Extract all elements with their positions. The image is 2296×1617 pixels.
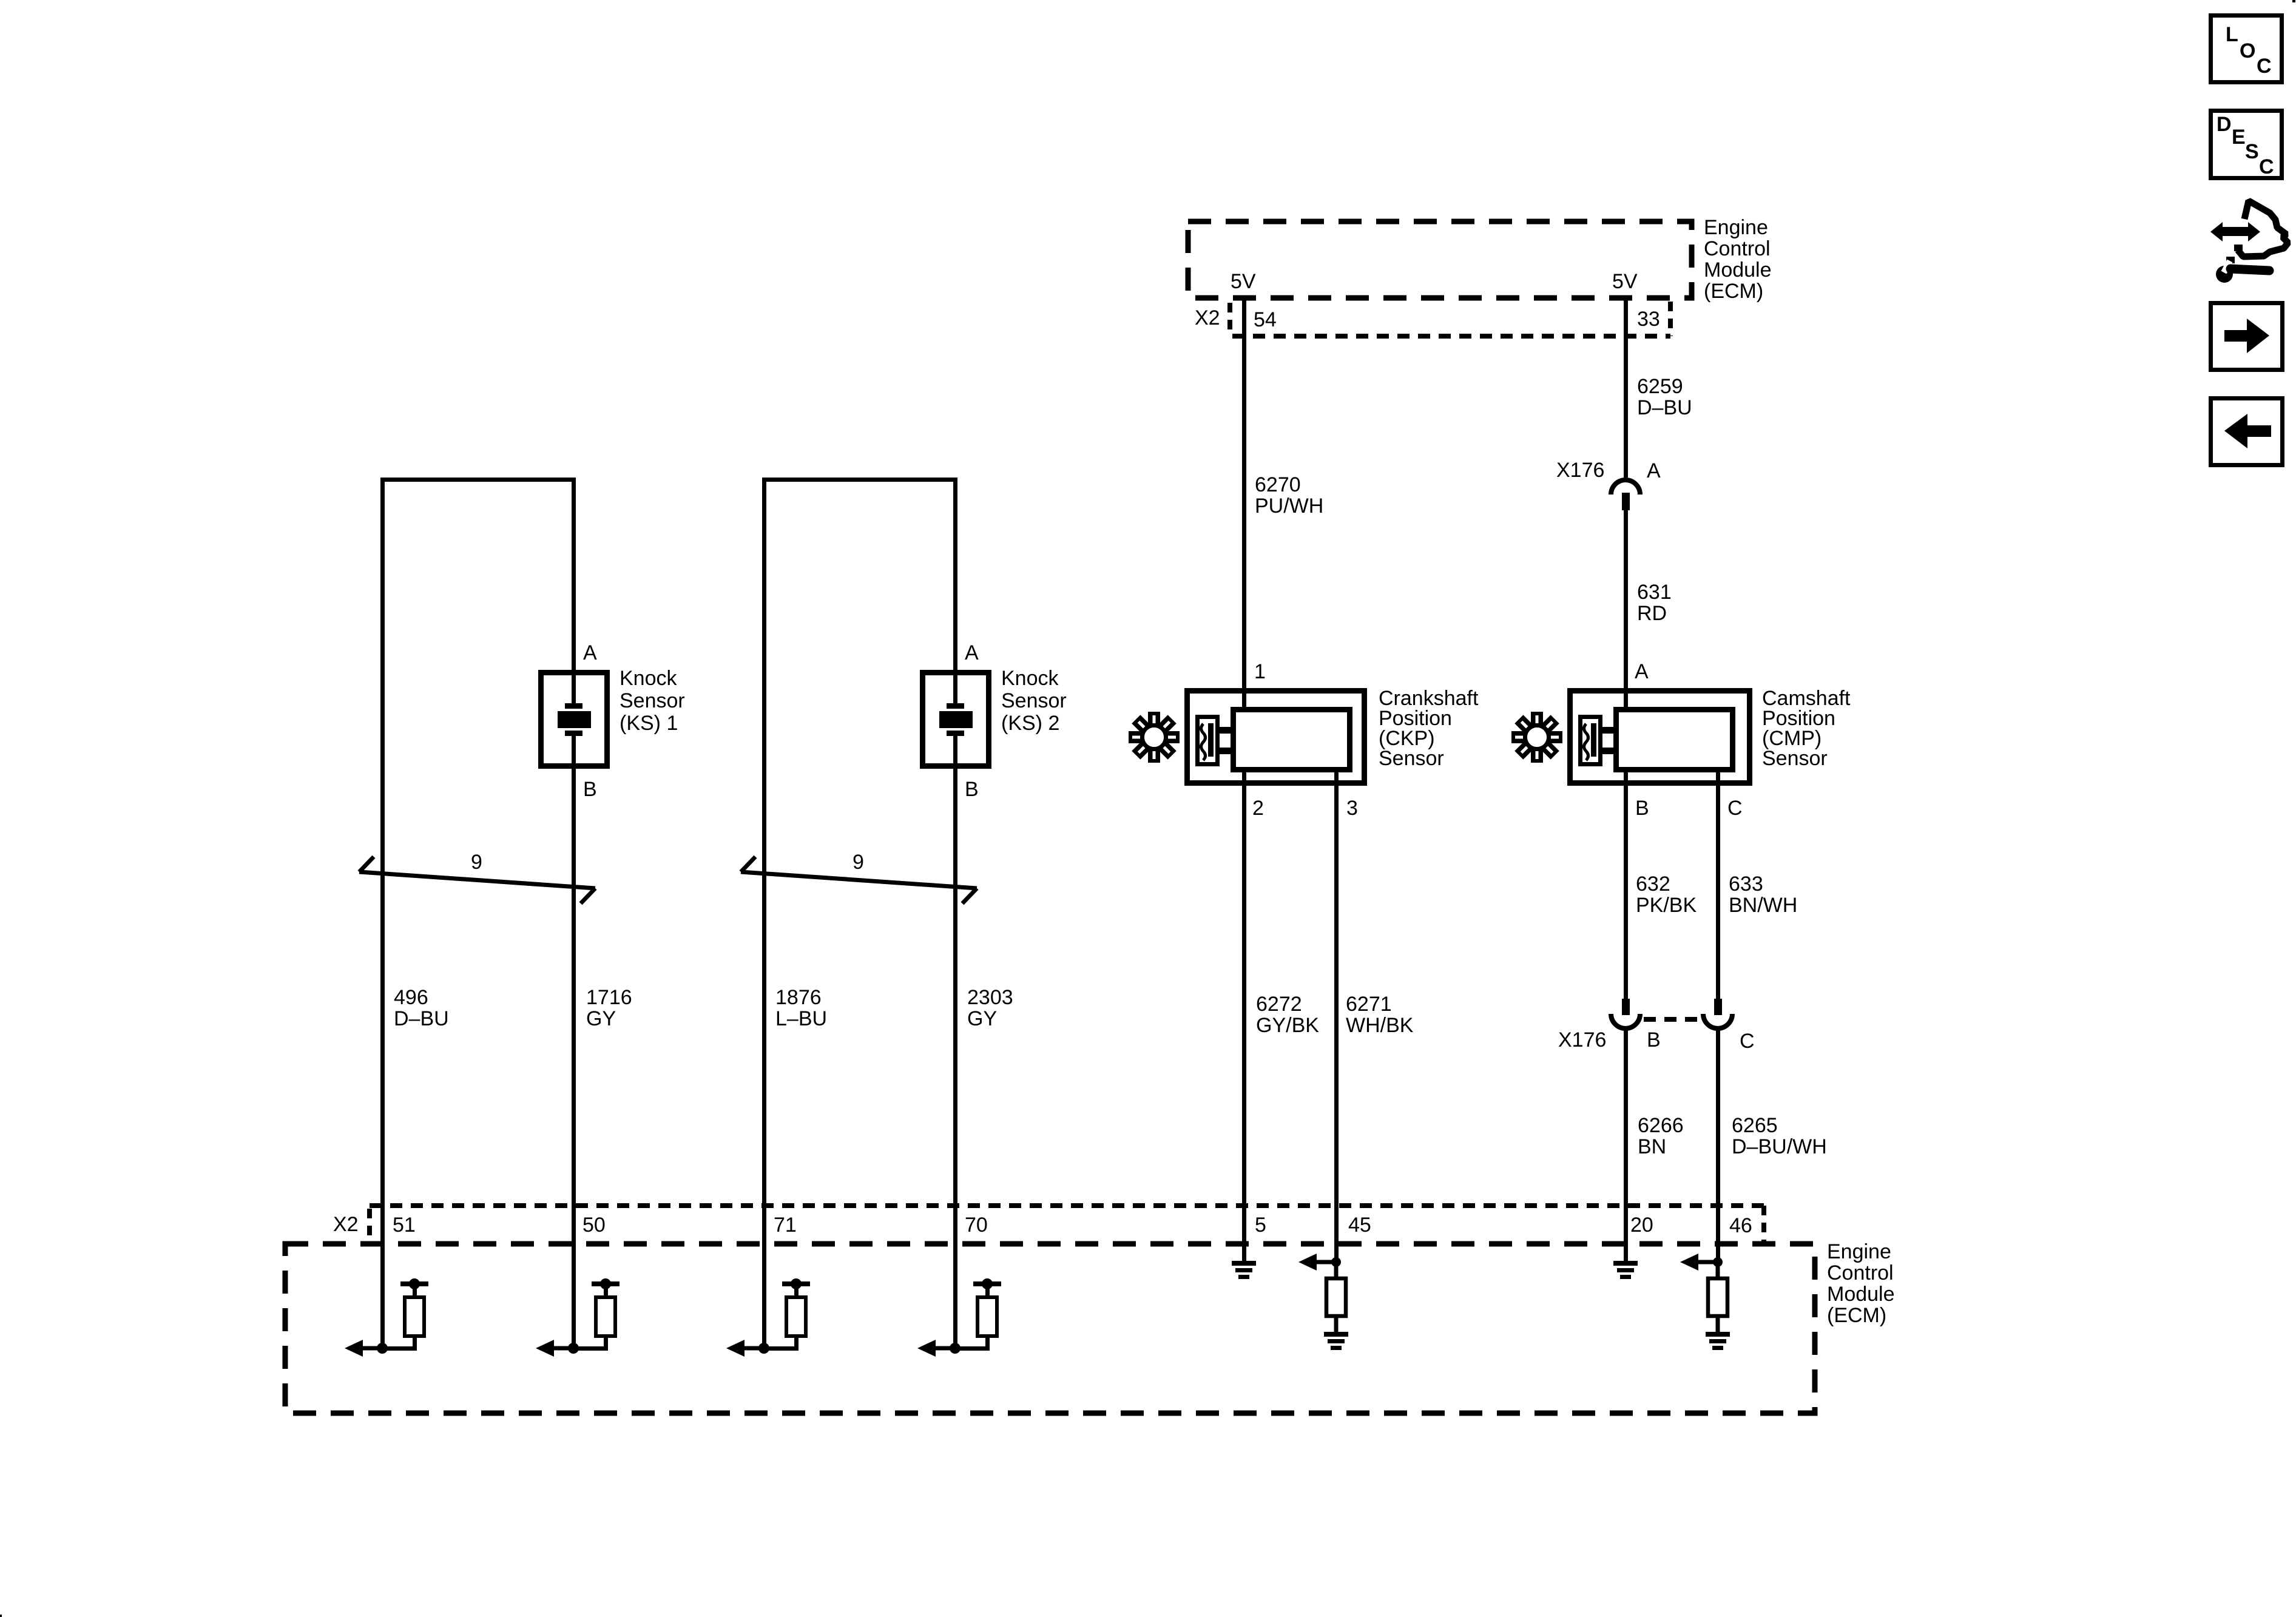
CMP reluctor gear icon <box>1511 712 1562 763</box>
wire 633 BN/WH (CMP pin C to X176 C) <box>1716 770 1720 999</box>
svg-text:X2: X2 <box>1195 306 1220 329</box>
svg-text:6266BN: 6266BN <box>1638 1114 1684 1158</box>
icon LOC box <box>2211 16 2282 83</box>
icon previous-page arrow box <box>2211 399 2283 465</box>
page corner mark top-right <box>2292 0 2295 2</box>
svg-text:46: 46 <box>1729 1214 1752 1237</box>
svg-text:X2: X2 <box>333 1213 359 1236</box>
knock sensor KS1 box <box>541 673 607 766</box>
svg-text:2303GY: 2303GY <box>967 986 1013 1030</box>
svg-text:C: C <box>1740 1030 1755 1053</box>
svg-text:B: B <box>965 778 979 801</box>
wire KS1 loop top <box>380 478 575 482</box>
svg-text:KnockSensor(KS) 1: KnockSensor(KS) 1 <box>620 667 685 735</box>
wire KS2 loop top <box>762 478 957 482</box>
wire 631 RD (X176 A to CMP pin A) <box>1624 510 1628 709</box>
X2 band separator (top) <box>1227 303 1232 334</box>
svg-text:A: A <box>1647 459 1661 482</box>
ECM bottom dashed box <box>285 1244 1815 1413</box>
svg-text:CamshaftPosition(CMP)Sensor: CamshaftPosition(CMP)Sensor <box>1762 687 1851 770</box>
svg-text:B: B <box>1635 797 1649 820</box>
X176 connector dashed link <box>1644 1017 1698 1022</box>
page corner mark bottom-left <box>0 1615 2 1617</box>
wire 632 PK/BK (CMP pin B to X176 B) <box>1624 770 1628 999</box>
X2 band top dotted line (bottom) <box>370 1203 1764 1208</box>
svg-text:6259D–BU: 6259D–BU <box>1637 375 1692 419</box>
svg-text:EngineControlModule(ECM): EngineControlModule(ECM) <box>1704 216 1772 303</box>
svg-text:631RD: 631RD <box>1637 581 1672 625</box>
svg-text:6272GY/BK: 6272GY/BK <box>1256 993 1319 1037</box>
ECM input circuit pin 71 (resistor + arrow) <box>726 1278 810 1357</box>
ECM top dashed box <box>1188 221 1692 298</box>
svg-text:S: S <box>2245 140 2259 163</box>
twisted pair splice KS2 <box>741 857 977 903</box>
wire 1876 L-BU (KS2 circuit loop left) <box>762 478 766 1350</box>
svg-text:B: B <box>1647 1028 1661 1052</box>
svg-text:A: A <box>583 641 597 664</box>
wire KS1 loop right down to sensor pin A <box>572 478 576 705</box>
svg-text:632PK/BK: 632PK/BK <box>1636 873 1697 917</box>
crankshaft position (CKP) sensor <box>1187 691 1365 783</box>
inline connector X176 pin C <box>1703 999 1732 1028</box>
svg-text:54: 54 <box>1254 308 1277 331</box>
wire KS2 loop right down to sensor pin A <box>953 478 957 705</box>
svg-text:20: 20 <box>1630 1214 1653 1237</box>
wire 6266 BN (X176 B to ECM pin 20) <box>1624 1029 1628 1261</box>
svg-text:E: E <box>2232 126 2246 149</box>
svg-text:9: 9 <box>853 851 864 874</box>
svg-text:X176: X176 <box>1556 459 1604 482</box>
ECM input circuit pin 50 (resistor + arrow) <box>536 1278 620 1357</box>
svg-text:1716GY: 1716GY <box>586 986 632 1030</box>
svg-text:C: C <box>2259 155 2274 178</box>
svg-text:33: 33 <box>1637 308 1660 331</box>
svg-text:5V: 5V <box>1612 270 1638 293</box>
ECM input circuit pin 70 (resistor + arrow) <box>917 1278 1001 1357</box>
svg-text:3: 3 <box>1346 797 1358 820</box>
svg-text:CrankshaftPosition(CKP)Sensor: CrankshaftPosition(CKP)Sensor <box>1379 687 1479 770</box>
X2 band right edge (top) <box>1668 302 1673 336</box>
X2 band right edge (bottom) <box>1761 1206 1766 1241</box>
wire 6270 PU/WH (ECM pin 54 to CKP pin 1) <box>1242 298 1246 709</box>
svg-text:6265D–BU/WH: 6265D–BU/WH <box>1732 1114 1827 1158</box>
knock sensor KS2 box <box>923 673 989 766</box>
X2 band bottom dotted line (top) <box>1232 334 1670 339</box>
ground pin 5 <box>1232 1261 1256 1279</box>
svg-text:KnockSensor(KS) 2: KnockSensor(KS) 2 <box>1001 667 1067 735</box>
twisted pair splice KS1 <box>359 857 595 903</box>
svg-text:L: L <box>2226 23 2238 46</box>
icon vehicle/wrench navigation <box>2210 201 2288 283</box>
svg-text:2: 2 <box>1252 797 1264 820</box>
svg-text:50: 50 <box>582 1214 606 1237</box>
ECM pin 45 pull-down resistor + arrow <box>1298 1254 1346 1332</box>
svg-text:633BN/WH: 633BN/WH <box>1729 873 1797 917</box>
svg-text:1876L–BU: 1876L–BU <box>775 986 827 1030</box>
X2 band separator (bottom) <box>367 1209 372 1241</box>
knock sensor KS2 piezo element <box>947 703 964 709</box>
svg-text:A: A <box>1635 660 1649 683</box>
wire 1716 GY (KS1 pin B down to ECM pin 50) <box>572 734 576 1350</box>
camshaft position (CMP) sensor <box>1570 691 1750 783</box>
wire 496 D-BU (KS1 circuit A-side loop left) <box>380 478 385 1350</box>
svg-text:496D–BU: 496D–BU <box>394 986 449 1030</box>
svg-text:EngineControlModule(ECM): EngineControlModule(ECM) <box>1827 1240 1895 1327</box>
svg-text:5V: 5V <box>1231 270 1256 293</box>
svg-text:O: O <box>2240 39 2255 62</box>
icon DESC box <box>2211 111 2282 178</box>
CKP reluctor gear icon <box>1129 712 1180 763</box>
svg-text:9: 9 <box>471 851 482 874</box>
ECM pin 46 pull-down resistor + arrow <box>1680 1254 1727 1332</box>
svg-text:71: 71 <box>774 1214 797 1237</box>
ECM pin 45 pull-down resistor + arrow ground <box>1324 1332 1348 1350</box>
svg-text:6270PU/WH: 6270PU/WH <box>1255 473 1323 518</box>
svg-text:A: A <box>965 641 979 664</box>
ECM input circuit pin 51 (resistor + arrow) <box>345 1278 428 1357</box>
svg-text:B: B <box>583 778 597 801</box>
wire 6259 D-BU (ECM pin 33 to X176 A) <box>1624 298 1628 478</box>
svg-text:C: C <box>1727 797 1743 820</box>
svg-text:D: D <box>2217 113 2232 136</box>
svg-text:X176: X176 <box>1558 1028 1606 1052</box>
ground pin 20 <box>1613 1261 1638 1279</box>
wire 6271 WH/BK (CKP pin 3 to ECM pin 45) <box>1334 770 1339 1262</box>
svg-text:51: 51 <box>393 1214 416 1237</box>
svg-text:1: 1 <box>1254 660 1266 683</box>
icon next-page arrow box <box>2211 303 2283 370</box>
svg-text:5: 5 <box>1255 1214 1266 1237</box>
svg-text:6271WH/BK: 6271WH/BK <box>1346 993 1414 1037</box>
wire 2303 GY (KS2 pin B down to ECM pin 70) <box>953 734 957 1350</box>
svg-text:C: C <box>2257 55 2272 78</box>
inline connector X176 pin B <box>1611 999 1640 1028</box>
wire 6265 D-BU/WH (X176 C to ECM pin 46) <box>1716 1029 1720 1262</box>
knock sensor KS1 piezo element <box>565 703 582 709</box>
ECM pin 46 pull-down resistor + arrow ground <box>1706 1332 1730 1350</box>
wire 6272 GY/BK (CKP pin 2 to ECM pin 5) <box>1242 770 1246 1261</box>
svg-text:70: 70 <box>965 1214 988 1237</box>
svg-text:45: 45 <box>1348 1214 1371 1237</box>
inline connector X176 pin A <box>1611 480 1640 510</box>
